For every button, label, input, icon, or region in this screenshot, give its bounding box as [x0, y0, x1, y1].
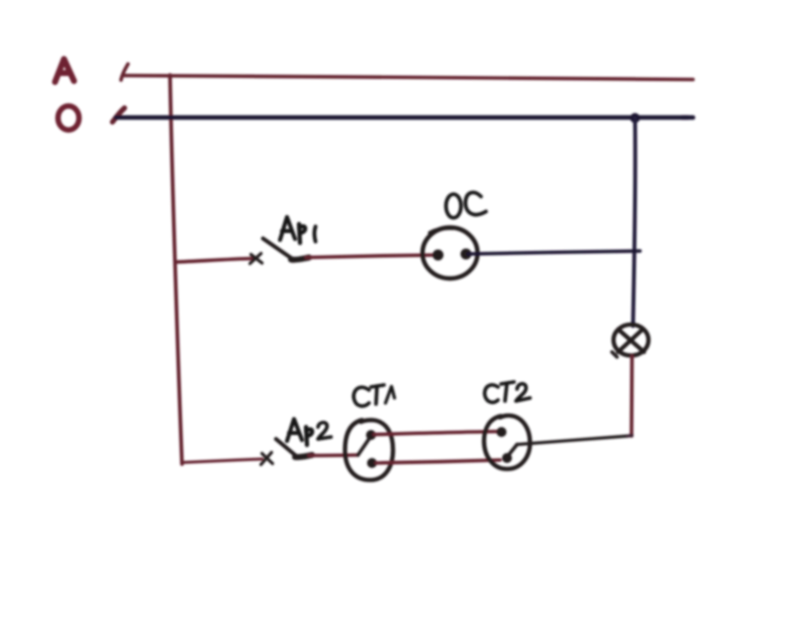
label Ap1 — [280, 217, 295, 240]
wire: CT2 to corner — [517, 436, 628, 445]
label CT1 — [354, 387, 369, 406]
CT2 lower contact dot — [502, 453, 512, 463]
OC right contact dot — [461, 249, 472, 260]
wire: lamp to corner — [630, 356, 634, 436]
neutral label O — [58, 106, 79, 130]
x mark at Ap2 — [261, 453, 273, 465]
CT1 upper contact dot — [366, 430, 376, 440]
wire: left vertical from A — [170, 75, 182, 464]
CT1 lower contact dot — [367, 458, 377, 468]
x mark at Ap1 — [250, 254, 262, 264]
CT2 lever — [507, 445, 517, 458]
tick at line O start — [113, 108, 125, 122]
wire: OC to right vertical — [468, 251, 640, 254]
corner joint bottom right — [628, 434, 632, 438]
label CT2 — [485, 385, 498, 402]
switch Ap2 — [276, 439, 298, 458]
wire: bottom branch left segment — [182, 459, 262, 463]
lamp HL — [614, 325, 649, 356]
label Ap2 — [287, 419, 302, 441]
junction on neutral line — [630, 113, 640, 123]
wire: Ap1 to OC — [306, 255, 437, 258]
CT1 lever — [358, 436, 371, 455]
wire: CT1 to CT2 lower — [376, 460, 500, 463]
switch Ap1 — [263, 239, 294, 261]
wire: CT1 to CT2 upper — [374, 432, 497, 435]
wire: right vertical drop — [633, 118, 635, 326]
label OC — [446, 194, 461, 218]
wire: branch 1 left segment — [176, 259, 252, 263]
OC left contact dot — [433, 250, 444, 261]
wire: phase line A — [123, 76, 693, 80]
tick at line A start — [121, 64, 128, 80]
arrow tip at right end of line O — [682, 115, 693, 120]
phase label A — [55, 59, 74, 82]
switch CT2 circle — [484, 416, 530, 470]
CT2 upper contact dot — [497, 427, 507, 437]
wire: neutral line O — [116, 115, 688, 120]
wire: Ap2 to CT1 — [309, 453, 358, 457]
lamp holder OC circle — [423, 228, 478, 279]
switch CT1 circle — [345, 420, 393, 480]
